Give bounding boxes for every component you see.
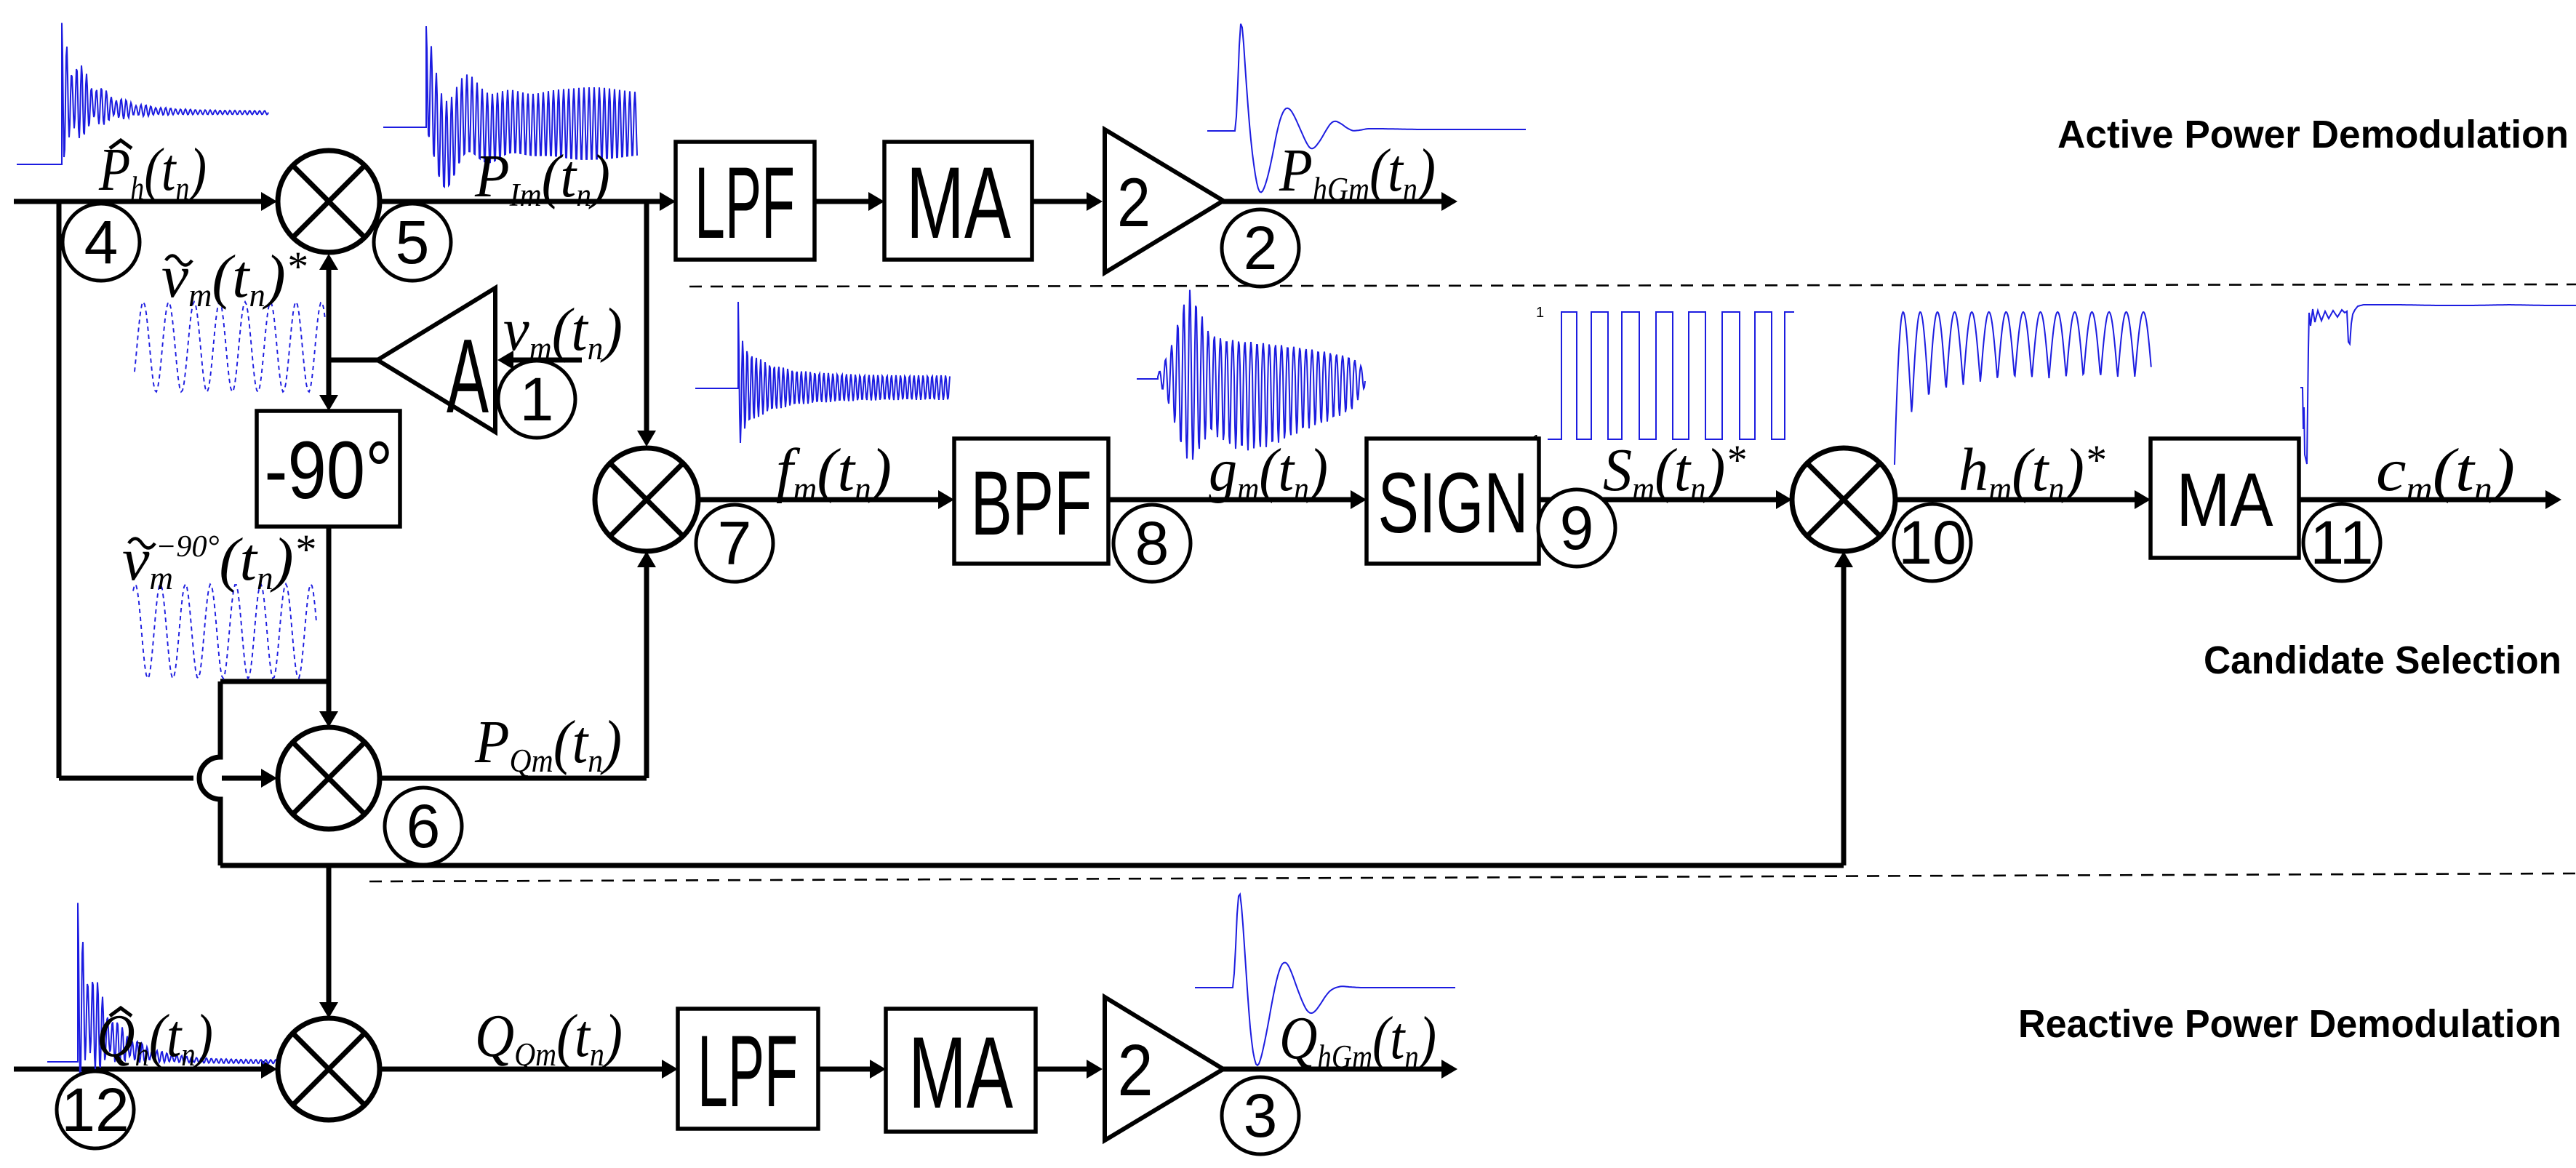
block MA top xyxy=(884,142,1032,260)
node 8 xyxy=(1113,505,1191,582)
wire: MA to gain 2 bottom row xyxy=(1036,1067,1089,1072)
multiplier 12 xyxy=(278,1018,380,1120)
svg-text:SIGN: SIGN xyxy=(1378,455,1529,551)
waveform Sm square wave xyxy=(1548,312,1794,439)
wire: gain 2 output PhGm xyxy=(1223,199,1444,204)
node 12 xyxy=(57,1071,134,1148)
waveform Qh bottom-left xyxy=(47,903,305,1081)
wire: Ph input to multiplier 5 xyxy=(14,199,263,204)
label PhGm(tn) xyxy=(1279,137,1436,207)
node 3 xyxy=(1222,1077,1299,1154)
waveform PhGm impulse response xyxy=(1207,24,1526,193)
svg-text:1: 1 xyxy=(520,365,554,433)
svg-text:vm(tn): vm(tn) xyxy=(503,295,623,367)
waveform fm xyxy=(695,302,950,443)
block LPF bottom xyxy=(678,1009,818,1129)
gain 2 triangle bottom xyxy=(1105,997,1223,1140)
svg-text:7: 7 xyxy=(718,509,752,577)
svg-text:LPF: LPF xyxy=(697,1014,798,1128)
block SIGN xyxy=(1367,439,1539,564)
node 7 xyxy=(696,505,773,582)
svg-text:9: 9 xyxy=(1560,494,1594,562)
svg-text:-90°: -90° xyxy=(265,425,393,516)
label cm(tn) xyxy=(2376,436,2515,507)
svg-text:PQm(tn): PQm(tn) xyxy=(474,708,622,779)
wire: MA to gain 2 top row xyxy=(1032,199,1089,204)
wire: BPF to SIGN gm xyxy=(1108,497,1353,503)
svg-text:MA: MA xyxy=(2177,458,2274,543)
label QQm(tn) xyxy=(475,1002,623,1073)
label gm(tn) xyxy=(1209,436,1328,507)
waveform gm xyxy=(1137,290,1365,460)
node 4 xyxy=(63,204,140,281)
block MA middle xyxy=(2151,439,2299,558)
svg-text:6: 6 xyxy=(407,792,441,860)
svg-text:Active Power Demodulation: Active Power Demodulation xyxy=(2057,113,2569,156)
label PQm(tn) xyxy=(474,708,622,779)
wire: multiplier 7 output fm to BPF xyxy=(698,497,940,503)
wire: Qh input to multiplier 12 xyxy=(14,1067,263,1072)
wire: branch down to multiplier 12 xyxy=(327,865,332,1003)
svg-text:3: 3 xyxy=(1244,1081,1278,1150)
label fm(tn) xyxy=(776,436,892,507)
multiplier 10 xyxy=(1792,448,1895,551)
wire: carrier bus mult5 to -90 box xyxy=(327,267,332,398)
node 11 xyxy=(2303,504,2380,581)
label vm(tn) input xyxy=(503,295,623,367)
separator dashed line bottom xyxy=(369,873,2576,881)
block MA bottom xyxy=(886,1009,1036,1132)
wire: SIGN to multiplier 10 Sm xyxy=(1539,497,1778,503)
node 5 xyxy=(374,204,451,281)
svg-text:QhGm(tn): QhGm(tn) xyxy=(1279,1004,1436,1076)
node 2 xyxy=(1222,209,1299,287)
svg-text:2: 2 xyxy=(1117,164,1151,241)
svg-text:10: 10 xyxy=(1898,508,1966,577)
waveform cm xyxy=(2300,305,2576,464)
label Ph(tn) xyxy=(98,135,207,207)
svg-text:gm(tn): gm(tn) xyxy=(1209,436,1328,507)
svg-text:11: 11 xyxy=(2310,508,2373,577)
svg-text:2: 2 xyxy=(1118,1030,1153,1111)
multiplier 7 xyxy=(595,448,698,551)
separator dashed line top xyxy=(689,284,2576,287)
svg-text:A: A xyxy=(447,317,489,435)
multiplier 6 xyxy=(278,727,380,829)
label hm(tn)* xyxy=(1959,436,2105,507)
svg-text:4: 4 xyxy=(84,208,119,276)
svg-text:MA: MA xyxy=(906,145,1011,260)
svg-text:Sm(tn)*: Sm(tn)* xyxy=(1603,436,1746,507)
svg-text:cm(tn): cm(tn) xyxy=(2376,436,2515,507)
block BPF xyxy=(954,439,1108,564)
svg-text:vm(tn)*: vm(tn)* xyxy=(161,243,307,313)
svg-text:fm(tn): fm(tn) xyxy=(776,436,892,507)
svg-text:Reactive Power Demodulation: Reactive Power Demodulation xyxy=(2018,1002,2561,1046)
label vm(tn)* carrier xyxy=(161,243,307,313)
svg-text:8: 8 xyxy=(1135,509,1169,577)
svg-text:LPF: LPF xyxy=(695,145,795,260)
svg-text:12: 12 xyxy=(61,1076,129,1144)
waveform PIm xyxy=(383,26,638,187)
wire: gain 2 output QhGm xyxy=(1223,1067,1444,1072)
wire: MA output cm xyxy=(2299,497,2548,503)
wire: vm input stub into amp A xyxy=(511,358,582,363)
waveform QhGm impulse response xyxy=(1195,895,1455,1065)
svg-text:MA: MA xyxy=(908,1015,1013,1129)
waveform vm -90 carrier sine (dashed) xyxy=(133,584,316,679)
label QhGm(tn) xyxy=(1279,1004,1436,1076)
waveform Ph top-left xyxy=(17,23,268,165)
node: junction at x=81 top line xyxy=(57,201,62,778)
svg-text:vm−90°(tn)*: vm−90°(tn)* xyxy=(122,526,316,596)
wire: LPF to MA top row xyxy=(815,199,871,204)
wire: junction left to bypass xyxy=(220,679,329,684)
wire: multiplier 5 to LPF xyxy=(380,199,662,204)
label vm-90(tn)* xyxy=(122,526,316,596)
node 6 xyxy=(385,788,462,865)
amplifier A triangle xyxy=(377,288,495,432)
wire: LPF to MA bottom row xyxy=(818,1067,872,1072)
wire: multiplier 10 to MA hm xyxy=(1895,497,2137,503)
svg-text:BPF: BPF xyxy=(971,453,1092,554)
gain 2 triangle top xyxy=(1105,129,1223,273)
wire: -90 box down to junction xyxy=(327,527,332,681)
node 9 xyxy=(1538,489,1615,567)
wire: junction to multiplier 6 top xyxy=(327,681,332,713)
block LPF top xyxy=(676,142,815,260)
label Sm(tn)* xyxy=(1603,436,1746,507)
svg-text:QQm(tn): QQm(tn) xyxy=(475,1002,623,1073)
svg-text:hm(tn)*: hm(tn)* xyxy=(1959,436,2105,507)
waveform hm scallops xyxy=(1895,312,2151,465)
svg-text:1: 1 xyxy=(1536,305,1544,321)
wire: amp A output to carrier bus xyxy=(329,358,377,363)
wire: multiplier 6 output PQm to multiplier 7 xyxy=(380,776,647,781)
multiplier 5 xyxy=(278,151,380,252)
node 10 xyxy=(1894,504,1971,581)
label Qh(tn) xyxy=(97,1001,213,1073)
label PIm(tn) xyxy=(474,142,610,213)
wire: bypass vertical with bridge hop xyxy=(199,681,220,865)
wire: left bus into multiplier 6 (with gap at bridge) xyxy=(59,776,193,781)
svg-text:Candidate Selection: Candidate Selection xyxy=(2204,639,2561,682)
block -90 degree phase shift xyxy=(257,411,400,527)
waveform vm carrier sine (dashed) xyxy=(135,302,325,392)
node: junction at x=889 on PIm line xyxy=(644,201,649,432)
wire: multiplier 12 output QQm to LPF xyxy=(380,1067,664,1072)
svg-text:5: 5 xyxy=(396,208,430,276)
svg-text:PIm(tn): PIm(tn) xyxy=(474,142,610,213)
node 1 xyxy=(498,361,575,438)
svg-text:PhGm(tn): PhGm(tn) xyxy=(1279,137,1436,207)
wire: long quadrature carrier line to multiplier 10 xyxy=(220,863,1844,868)
svg-text:2: 2 xyxy=(1244,214,1278,282)
